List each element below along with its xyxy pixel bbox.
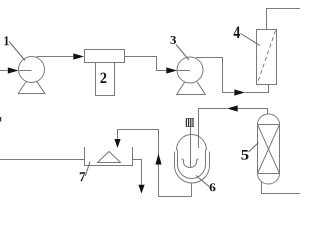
reactor 6 motor hatch: [186, 118, 194, 127]
leader line 3: [176, 45, 189, 61]
pump P1 circle: [19, 57, 45, 83]
pump P3 base trapezoid: [177, 82, 206, 95]
label 7: [80, 172, 85, 181]
arrow into pump 3: [166, 67, 177, 73]
arrow up on riser: [155, 154, 161, 165]
wire column 4 top outlet: [267, 9, 301, 30]
label 3: [171, 36, 177, 44]
wire reactor 6 drain to riser and trough: [118, 130, 192, 197]
reactor 6 anchor impeller: [182, 159, 198, 168]
leader line 6: [196, 176, 209, 187]
adsorber 5 bottom outlet wire: [262, 182, 301, 194]
trough 7 triangle screen: [98, 152, 121, 163]
arrow into mixer 2: [73, 53, 84, 59]
reactor 6 bottom outlet: [191, 183, 193, 197]
wire pump 3 to column 4: [196, 58, 234, 93]
label 1: [4, 36, 8, 45]
wire pump 1 to mixer 2: [37, 56, 74, 58]
reactor 6 inner vessel: [178, 150, 206, 179]
column 4 body: [257, 30, 277, 85]
mixer 2 stem: [96, 63, 115, 96]
leader line 1: [9, 42, 25, 61]
leader line 4: [241, 34, 261, 46]
trough 7 body: [85, 147, 133, 166]
wire adsorber 5 top to reactor 6: [238, 109, 268, 115]
label 2: [100, 73, 106, 83]
label 6: [210, 183, 216, 191]
label 5: [241, 150, 248, 160]
pump P3 circle: [177, 57, 203, 83]
label 4: [234, 27, 241, 39]
reactor 6 dome: [177, 134, 207, 150]
pump P1 base trapezoid: [18, 81, 45, 93]
leader line 7: [85, 162, 90, 177]
wire into reactor 6 dome: [199, 109, 228, 149]
leader line 5: [249, 143, 259, 153]
arrow down product out: [138, 185, 144, 194]
adsorber 5 bottom cap: [258, 174, 280, 185]
adsorber 5 walls: [258, 125, 280, 174]
reactor 6 stirrer shaft: [190, 127, 192, 167]
pump P1 center line: [19, 70, 32, 72]
adsorber 5 bottom chord: [258, 173, 280, 175]
adsorber 5 top chord: [258, 124, 280, 126]
wire mixer 2 to pump 3: [125, 57, 167, 71]
mixer 2 body: [85, 50, 125, 63]
edge glyph fragment: [0, 117, 1, 122]
trough 7 inlet wire: [0, 159, 85, 161]
wire into column 4 bottom: [245, 85, 269, 93]
arrow on wire to column 4: [234, 89, 245, 95]
adsorber 5 top cap: [258, 114, 280, 124]
arrow into pump 1: [8, 67, 19, 73]
arrow down into trough 7: [114, 139, 120, 148]
pump P3 center line: [177, 70, 190, 72]
reactor 6 jacket: [175, 152, 210, 184]
arrow toward reactor 6: [227, 105, 238, 111]
column 4 membrane dashed diagonal: [258, 31, 276, 84]
adsorber 5 X packing: [258, 125, 280, 174]
wire feed inlet to pump 1: [0, 70, 8, 72]
trough 7 outlet wire: [133, 160, 142, 185]
